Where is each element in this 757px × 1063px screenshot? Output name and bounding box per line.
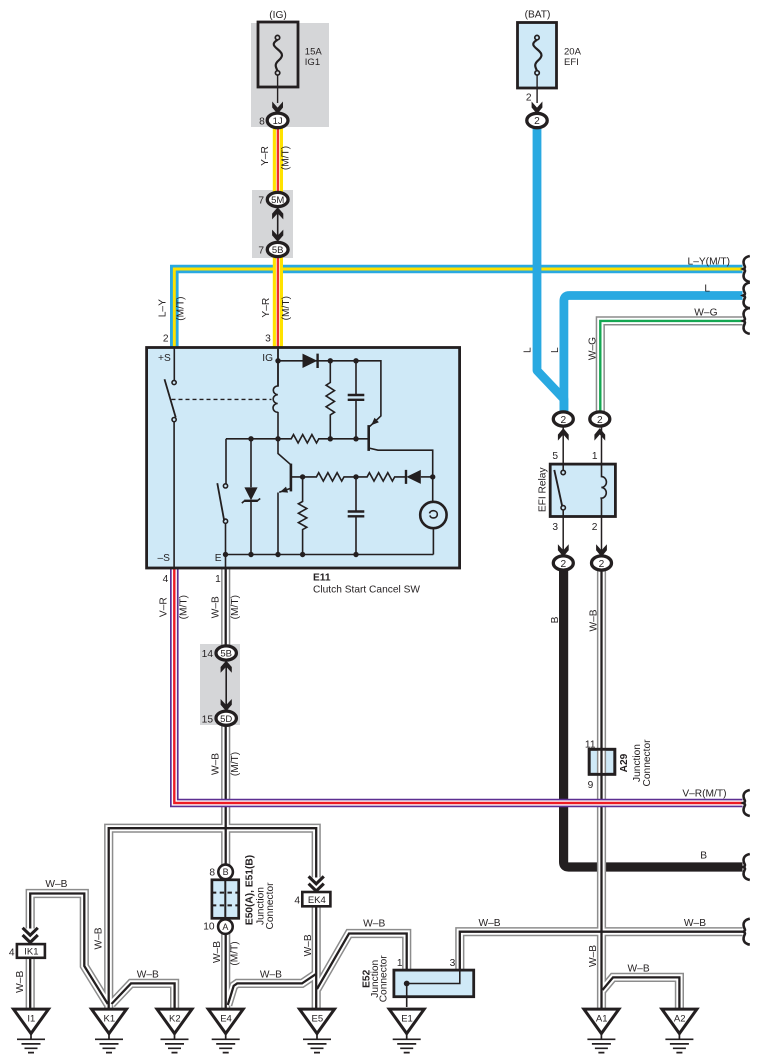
svg-text:2: 2 [560,559,566,570]
svg-text:W–B: W–B [212,941,223,963]
svg-text:B: B [700,851,707,862]
svg-text:2: 2 [526,93,532,104]
svg-text:L–Y: L–Y [157,299,168,317]
svg-text:2: 2 [597,415,603,426]
svg-text:4: 4 [294,895,300,906]
svg-text:2: 2 [163,333,169,344]
svg-text:(BAT): (BAT) [525,10,551,21]
svg-text:+S: +S [158,353,171,364]
svg-text:W–G: W–G [587,337,598,360]
svg-text:Connector: Connector [265,882,276,930]
svg-text:A: A [222,922,228,932]
svg-text:3: 3 [552,522,558,533]
svg-text:(IG): (IG) [269,10,287,21]
svg-text:W–B: W–B [478,918,500,929]
svg-text:15A: 15A [305,46,323,57]
svg-text:IG: IG [262,353,273,364]
svg-text:2: 2 [592,522,598,533]
svg-text:5D: 5D [220,714,232,725]
svg-text:W–B: W–B [211,753,222,775]
svg-text:E: E [215,553,222,564]
svg-text:7: 7 [258,195,264,206]
svg-text:3: 3 [265,333,271,344]
svg-text:EFI Relay: EFI Relay [538,467,549,513]
svg-text:B: B [223,867,229,877]
svg-text:5B: 5B [272,245,284,256]
svg-text:L: L [550,347,561,353]
svg-text:W–B: W–B [94,927,105,949]
svg-text:Y–R: Y–R [261,298,272,318]
svg-text:1: 1 [592,451,598,462]
svg-text:8: 8 [209,868,215,879]
svg-text:W–B: W–B [303,934,314,956]
svg-text:V–R(M/T): V–R(M/T) [682,789,726,800]
svg-text:W–B: W–B [588,945,599,967]
svg-text:IG1: IG1 [305,57,320,68]
svg-text:K1: K1 [103,1013,115,1024]
svg-text:5: 5 [552,451,558,462]
svg-text:9: 9 [588,780,594,791]
svg-text:(M/T): (M/T) [179,595,190,619]
svg-text:W–B: W–B [628,964,650,975]
svg-text:1: 1 [215,574,221,585]
svg-text:L: L [704,284,710,295]
svg-text:5M: 5M [271,195,284,206]
svg-text:1: 1 [397,958,403,969]
svg-text:E4: E4 [220,1013,232,1024]
svg-text:(M/T): (M/T) [176,296,187,320]
svg-text:(M/T): (M/T) [230,595,241,619]
svg-text:L: L [523,347,534,353]
svg-text:7: 7 [258,245,264,256]
svg-text:2: 2 [599,559,605,570]
svg-text:EFI: EFI [564,57,579,68]
svg-text:K2: K2 [169,1013,181,1024]
svg-text:V–R: V–R [159,597,170,617]
svg-text:B: B [550,616,561,623]
svg-text:4: 4 [9,947,15,958]
svg-text:W–B: W–B [137,970,159,981]
svg-text:Connector: Connector [378,955,389,1003]
svg-text:10: 10 [203,922,215,933]
svg-text:15: 15 [202,714,214,725]
svg-text:4: 4 [163,574,169,585]
svg-text:A1: A1 [596,1013,608,1024]
svg-text:EK4: EK4 [308,895,326,906]
svg-text:A2: A2 [674,1013,686,1024]
svg-text:E11: E11 [313,572,331,583]
svg-text:W–B: W–B [363,919,385,930]
svg-text:11: 11 [585,739,596,750]
svg-text:5B: 5B [220,649,232,660]
svg-text:14: 14 [202,649,214,660]
svg-text:A29: A29 [619,753,630,772]
svg-text:2: 2 [560,415,566,426]
svg-text:3: 3 [450,958,456,969]
svg-text:(M/T): (M/T) [229,941,240,965]
svg-text:1J: 1J [273,116,283,127]
svg-text:E5: E5 [311,1013,323,1024]
svg-text:–S: –S [158,553,171,564]
svg-text:W–B: W–B [684,918,706,929]
svg-text:W–B: W–B [45,879,67,890]
svg-text:W–G: W–G [694,308,717,319]
svg-text:W–B: W–B [260,970,282,981]
svg-text:I1: I1 [27,1013,35,1024]
svg-text:(M/T): (M/T) [281,146,292,170]
svg-text:20A: 20A [564,46,582,57]
svg-text:(M/T): (M/T) [281,296,292,320]
svg-text:8: 8 [259,116,265,127]
svg-text:IK1: IK1 [24,947,38,958]
svg-text:Connector: Connector [642,739,653,787]
svg-text:Y–R: Y–R [260,146,271,166]
svg-text:2: 2 [534,116,540,127]
svg-text:(M/T): (M/T) [230,752,241,776]
svg-text:Clutch Start Cancel SW: Clutch Start Cancel SW [313,585,420,596]
svg-text:E50(A), E51(B): E50(A), E51(B) [244,855,255,925]
svg-text:L–Y(M/T): L–Y(M/T) [688,257,730,268]
svg-text:W–B: W–B [15,971,26,993]
svg-text:W–B: W–B [589,609,600,631]
svg-text:E1: E1 [401,1013,413,1024]
svg-text:W–B: W–B [211,596,222,618]
